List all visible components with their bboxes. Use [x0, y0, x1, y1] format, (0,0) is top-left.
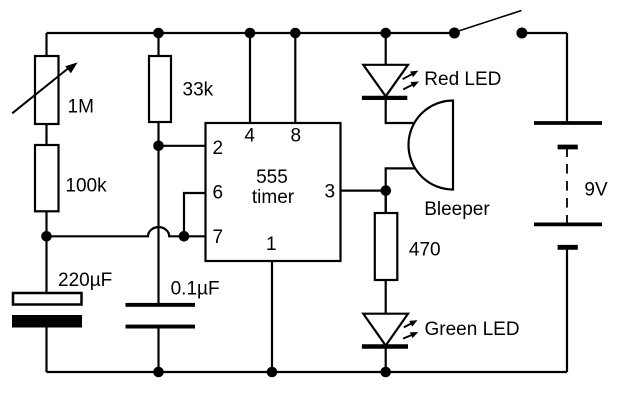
- wire pin 4 stub: [249, 33, 251, 123]
- wire pin 3 to LED column: [341, 190, 386, 192]
- wire pin 7 run with hop over vertical wire: [47, 227, 206, 236]
- svg-text:8: 8: [291, 126, 302, 147]
- wire pin3 node to R 470 (junction above): [385, 191, 387, 213]
- wire right rail upper (to battery +): [566, 33, 568, 121]
- wire C 220uF to bottom rail: [45, 328, 47, 373]
- battery BT1 stub below cell1 short plate: [566, 147, 568, 157]
- svg-text:6: 6: [213, 183, 224, 204]
- node dot bottom rail green LED: [380, 367, 391, 378]
- battery BT1 cell1 long plate: [534, 121, 602, 125]
- LED D2 green emission arrows: [403, 317, 419, 338]
- wire R 470 to green LED: [385, 280, 387, 314]
- battery BT1 cell2 long plate: [534, 222, 602, 226]
- switch SW1 blade: [457, 11, 522, 32]
- wire R 100k to C 220uF via node: [45, 211, 47, 293]
- LED D1 red triangle: [363, 65, 408, 97]
- LED D2 green triangle: [363, 314, 408, 346]
- wire VR1 to R 100k: [45, 124, 47, 145]
- svg-text:2: 2: [213, 138, 224, 159]
- svg-text:4: 4: [244, 126, 255, 147]
- svg-text:Bleeper: Bleeper: [424, 199, 490, 220]
- svg-text:Red LED: Red LED: [424, 69, 501, 90]
- wire pin 1 to bottom rail: [271, 261, 273, 372]
- wire bleeper bottom terminal to pin3 node: [386, 168, 418, 213]
- wire red LED to bleeper top terminal: [386, 100, 418, 124]
- variable resistor VR1 1M body: [35, 56, 59, 124]
- resistor R3 33k body: [149, 56, 171, 122]
- LED D1 red cathode bar: [362, 96, 407, 100]
- svg-text:0.1µF: 0.1µF: [171, 278, 220, 299]
- LED D2 green cathode bar: [362, 344, 408, 348]
- node junction dot (100k / 220uF / pin7 wire): [41, 231, 52, 242]
- node dot pin2 junction: [153, 141, 164, 152]
- wire R 33k down to C 0.1uF (through pin2 node): [157, 122, 159, 303]
- battery BT1 cell1 short plate: [558, 145, 578, 150]
- node dot top rail red LED: [380, 28, 391, 39]
- wire bottom rail: [47, 371, 568, 373]
- capacitor C2 0.1uF top plate: [126, 303, 196, 307]
- svg-text:33k: 33k: [183, 80, 214, 101]
- svg-text:timer: timer: [252, 187, 295, 208]
- wire top rail to red LED: [385, 33, 387, 65]
- capacitor C2 0.1uF bottom plate: [126, 325, 196, 329]
- bleeper LS1 body: [409, 101, 454, 190]
- node dot pin7 junction: [179, 231, 190, 242]
- wire pin 6 link to pin 7 node: [184, 193, 206, 236]
- battery BT1 dashed link: [566, 164, 568, 223]
- resistor R4 470 body: [375, 213, 398, 280]
- svg-text:9V: 9V: [584, 179, 608, 200]
- resistor R2 100k body: [35, 145, 59, 211]
- battery BT1 cell2 short plate: [558, 245, 578, 250]
- node dot top rail 33k: [153, 28, 164, 39]
- wire green LED to bottom rail: [385, 348, 387, 372]
- svg-text:1M: 1M: [68, 97, 94, 118]
- LED D1 red emission arrows: [403, 68, 421, 90]
- node dot bottom rail 0.1uF: [153, 367, 164, 378]
- wire pin 2 to node: [159, 145, 206, 147]
- svg-text:220µF: 220µF: [58, 270, 112, 291]
- node dot top rail pin8: [290, 28, 301, 39]
- wire right rail lower (battery - to bottom): [566, 249, 568, 372]
- svg-text:Green LED: Green LED: [425, 319, 520, 340]
- wire pin 8 stub: [294, 33, 296, 123]
- node dot top rail pin4: [245, 28, 256, 39]
- wire top rail (left section): [47, 32, 455, 34]
- svg-text:100k: 100k: [65, 176, 107, 197]
- wire C 0.1uF to bottom rail: [157, 329, 159, 373]
- capacitor C1 220uF negative plate (solid): [12, 315, 82, 328]
- switch SW1 pole dot: [449, 28, 460, 39]
- variable resistor VR1 arrow: [12, 62, 77, 113]
- switch SW1 throw dot: [516, 28, 527, 39]
- wire top rail (right section after switch): [522, 32, 567, 34]
- wire left rail: corner to VR1: [45, 33, 47, 56]
- wire top rail to R 33k: [157, 33, 159, 56]
- op-amp U1 555 timer body: [206, 123, 341, 261]
- node dot pin3 junction: [381, 185, 392, 196]
- svg-text:470: 470: [409, 240, 441, 261]
- svg-text:3: 3: [325, 182, 336, 203]
- capacitor C1 220uF positive plate (hollow): [13, 293, 82, 305]
- svg-text:1: 1: [266, 234, 277, 255]
- svg-text:7: 7: [213, 227, 224, 248]
- svg-text:555: 555: [256, 167, 288, 188]
- node dot bottom rail pin1: [267, 367, 278, 378]
